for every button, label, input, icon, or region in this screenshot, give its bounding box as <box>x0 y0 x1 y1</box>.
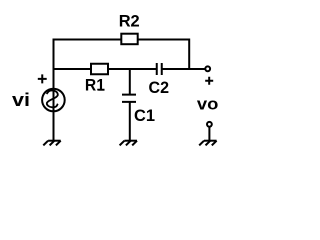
capacitor C2 plates <box>157 63 162 75</box>
svg-text:vi: vi <box>12 90 30 110</box>
resistor R1 <box>91 64 108 75</box>
terminal bottom <box>207 122 212 127</box>
resistor R2 <box>121 34 137 45</box>
wire: left vertical from top corner through source to ground <box>53 40 55 142</box>
wire: top horizontal <box>53 39 190 41</box>
wire: vo terminal stem <box>208 126 210 141</box>
plus sign vo <box>205 77 213 85</box>
source vi circle <box>42 89 65 112</box>
ground under C1 <box>120 141 137 146</box>
svg-text:C1: C1 <box>134 106 155 125</box>
wire: right vertical <box>188 39 190 70</box>
terminal top (vo +) <box>205 66 210 71</box>
svg-text:R2: R2 <box>119 12 140 31</box>
svg-text:C2: C2 <box>149 78 170 97</box>
ground under vo terminal <box>199 141 216 146</box>
wire: middle horizontal right of C2 to terminal <box>162 68 205 70</box>
ground under vi <box>43 141 60 146</box>
wire: C1 stem top <box>129 69 131 95</box>
wire: middle horizontal left of C2 <box>54 68 157 70</box>
plus sign vi <box>38 74 47 83</box>
svg-text:vo: vo <box>197 95 219 114</box>
capacitor C1 plates <box>122 95 136 102</box>
wire: C1 stem bottom <box>129 102 131 141</box>
svg-text:R1: R1 <box>85 76 105 95</box>
source vi sine squiggle <box>47 90 58 107</box>
